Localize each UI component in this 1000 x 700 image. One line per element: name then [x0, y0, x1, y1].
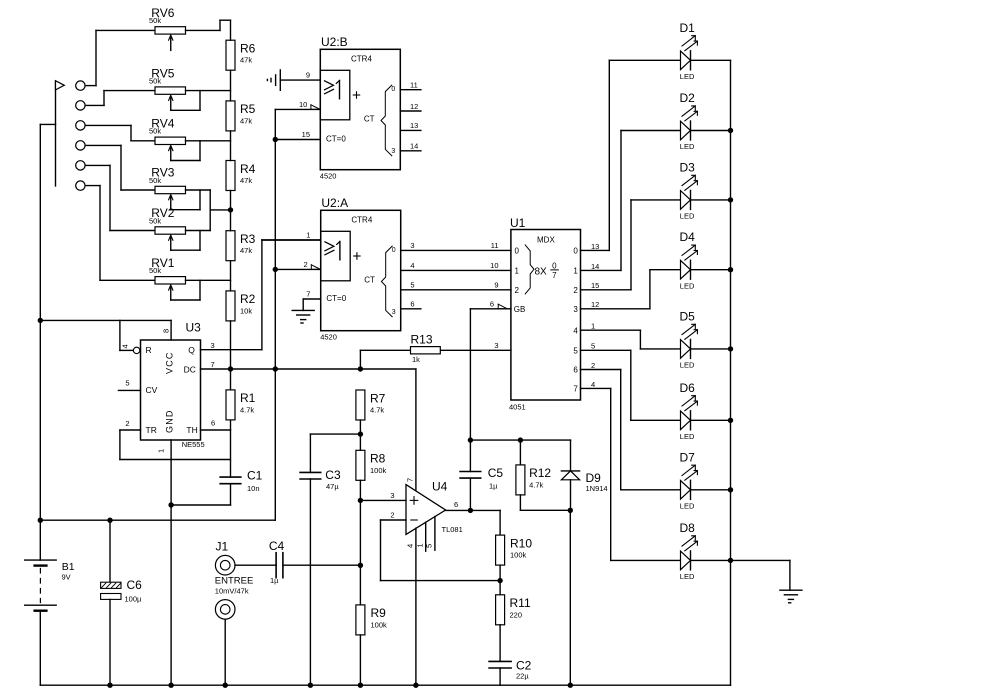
svg-text:Q: Q	[188, 345, 195, 355]
svg-text:1: 1	[157, 449, 166, 453]
svg-text:MDX: MDX	[537, 235, 555, 244]
svg-text:0: 0	[515, 247, 520, 256]
svg-text:D8: D8	[680, 521, 696, 535]
svg-text:D7: D7	[680, 450, 696, 464]
svg-text:13: 13	[591, 242, 599, 251]
svg-text:9: 9	[494, 280, 498, 289]
svg-text:CTR4: CTR4	[351, 216, 372, 225]
svg-text:0: 0	[552, 262, 557, 271]
svg-text:CV: CV	[146, 385, 158, 395]
svg-text:9V: 9V	[62, 573, 71, 582]
svg-text:4: 4	[406, 544, 415, 548]
svg-text:LED: LED	[680, 361, 695, 370]
svg-text:5: 5	[573, 347, 578, 356]
svg-text:7: 7	[306, 289, 310, 298]
svg-text:47µ: 47µ	[326, 482, 339, 491]
svg-text:R1: R1	[240, 391, 256, 405]
svg-text:8: 8	[162, 329, 171, 333]
svg-text:R10: R10	[510, 536, 532, 550]
svg-text:11: 11	[410, 81, 418, 90]
svg-text:R: R	[146, 345, 152, 355]
svg-text:TH: TH	[186, 425, 197, 435]
svg-text:50k: 50k	[149, 76, 161, 85]
svg-text:1µ: 1µ	[270, 576, 279, 585]
svg-text:0: 0	[391, 86, 395, 93]
svg-text:50k: 50k	[149, 16, 161, 25]
svg-text:22µ: 22µ	[516, 672, 529, 681]
svg-text:8X: 8X	[535, 266, 548, 277]
svg-text:50k: 50k	[149, 176, 161, 185]
svg-text:10: 10	[490, 261, 498, 270]
svg-text:13: 13	[410, 121, 418, 130]
svg-text:VCC: VCC	[165, 351, 175, 374]
svg-text:12: 12	[591, 300, 599, 309]
svg-text:D9: D9	[586, 471, 602, 485]
svg-text:CT=0: CT=0	[326, 294, 346, 303]
svg-text:4520: 4520	[320, 333, 337, 342]
svg-text:15: 15	[591, 281, 599, 290]
svg-text:D4: D4	[680, 230, 696, 244]
svg-text:6: 6	[211, 419, 215, 428]
svg-text:GB: GB	[514, 305, 526, 314]
svg-text:100k: 100k	[370, 466, 387, 475]
svg-text:TR: TR	[146, 425, 157, 435]
svg-text:U2:A: U2:A	[321, 196, 348, 210]
svg-text:2: 2	[573, 286, 578, 295]
svg-text:1µ: 1µ	[489, 482, 498, 491]
svg-text:4520: 4520	[320, 172, 337, 181]
svg-text:NE555: NE555	[182, 440, 205, 449]
svg-text:CT: CT	[364, 115, 375, 124]
svg-text:50k: 50k	[149, 127, 161, 136]
svg-text:5: 5	[125, 379, 129, 388]
svg-text:6: 6	[454, 500, 458, 509]
svg-text:D5: D5	[680, 309, 696, 323]
svg-text:U2:B: U2:B	[321, 35, 348, 49]
svg-text:LED: LED	[680, 502, 695, 511]
svg-text:50k: 50k	[149, 266, 161, 275]
svg-text:0: 0	[573, 247, 578, 256]
svg-text:1: 1	[306, 230, 310, 239]
svg-text:4051: 4051	[509, 402, 526, 411]
svg-text:10n: 10n	[247, 484, 260, 493]
svg-text:1: 1	[591, 322, 595, 331]
svg-text:D6: D6	[680, 381, 696, 395]
svg-text:2: 2	[591, 361, 595, 370]
svg-text:7: 7	[406, 478, 415, 482]
svg-text:R4: R4	[240, 162, 256, 176]
svg-text:B1: B1	[62, 561, 75, 573]
svg-text:1: 1	[415, 543, 424, 547]
svg-text:10mV/47k: 10mV/47k	[215, 586, 249, 595]
svg-text:0: 0	[392, 247, 396, 254]
svg-text:4.7k: 4.7k	[240, 405, 254, 414]
svg-text:3: 3	[410, 241, 414, 250]
svg-text:GND: GND	[165, 409, 175, 433]
svg-text:R12: R12	[529, 466, 551, 480]
svg-text:5: 5	[425, 544, 434, 548]
svg-text:C6: C6	[127, 578, 143, 592]
svg-text:D3: D3	[680, 160, 696, 174]
svg-text:12: 12	[410, 102, 418, 111]
svg-text:2: 2	[390, 511, 394, 520]
svg-text:15: 15	[302, 130, 310, 139]
svg-text:D1: D1	[680, 21, 696, 35]
svg-text:47k: 47k	[240, 176, 252, 185]
svg-text:U1: U1	[510, 216, 526, 230]
svg-text:5: 5	[591, 342, 595, 351]
svg-text:9: 9	[306, 71, 310, 80]
svg-text:J1: J1	[216, 539, 229, 553]
svg-text:LED: LED	[680, 212, 695, 221]
svg-text:ENTREE: ENTREE	[215, 575, 254, 586]
svg-text:3: 3	[211, 341, 215, 350]
svg-text:4: 4	[573, 326, 578, 335]
svg-text:R11: R11	[510, 596, 531, 610]
svg-text:220: 220	[510, 610, 523, 619]
svg-text:4: 4	[120, 344, 129, 348]
svg-text:11: 11	[491, 241, 499, 250]
svg-text:CT=0: CT=0	[326, 134, 346, 143]
svg-text:14: 14	[591, 262, 599, 271]
svg-text:LED: LED	[680, 432, 695, 441]
svg-text:DC: DC	[184, 364, 196, 374]
svg-text:6: 6	[410, 300, 414, 309]
svg-text:100k: 100k	[510, 551, 527, 560]
svg-text:2: 2	[304, 260, 308, 269]
svg-text:6: 6	[573, 366, 578, 375]
svg-text:LED: LED	[680, 572, 695, 581]
svg-text:R6: R6	[240, 42, 256, 56]
svg-text:100µ: 100µ	[125, 594, 143, 603]
svg-text:TL081: TL081	[442, 525, 463, 534]
svg-text:1k: 1k	[412, 355, 420, 364]
svg-text:1: 1	[515, 267, 520, 276]
svg-text:7: 7	[211, 360, 215, 369]
svg-text:1N914: 1N914	[586, 484, 608, 493]
svg-text:10: 10	[299, 100, 307, 109]
svg-text:R3: R3	[240, 232, 256, 246]
svg-text:C1: C1	[247, 469, 263, 483]
svg-text:14: 14	[410, 142, 418, 151]
svg-text:5: 5	[410, 281, 414, 290]
svg-text:3: 3	[391, 148, 395, 155]
svg-text:R2: R2	[240, 292, 256, 306]
svg-text:7: 7	[573, 385, 578, 394]
svg-text:3: 3	[390, 491, 394, 500]
svg-text:1: 1	[573, 267, 578, 276]
svg-text:3: 3	[573, 305, 578, 314]
svg-text:R9: R9	[371, 606, 387, 620]
svg-text:LED: LED	[680, 72, 695, 81]
svg-text:R5: R5	[240, 102, 256, 116]
svg-text:4: 4	[410, 261, 414, 270]
svg-text:CTR4: CTR4	[351, 55, 372, 64]
svg-text:47k: 47k	[240, 56, 252, 65]
svg-text:47k: 47k	[240, 116, 252, 125]
svg-text:50k: 50k	[149, 216, 161, 225]
svg-text:100k: 100k	[371, 620, 388, 629]
svg-text:2: 2	[515, 286, 520, 295]
svg-text:CT: CT	[364, 276, 375, 285]
svg-text:C2: C2	[516, 658, 532, 672]
svg-text:R8: R8	[370, 452, 386, 466]
svg-text:U3: U3	[186, 321, 202, 335]
svg-text:C4: C4	[269, 539, 285, 553]
svg-text:47k: 47k	[240, 246, 252, 255]
svg-text:C5: C5	[488, 466, 504, 480]
svg-text:7: 7	[552, 271, 557, 280]
svg-text:6: 6	[490, 299, 494, 308]
svg-text:R13: R13	[411, 333, 433, 347]
svg-text:U4: U4	[432, 480, 448, 494]
svg-text:LED: LED	[680, 142, 695, 151]
svg-text:3: 3	[392, 309, 396, 316]
svg-text:10k: 10k	[240, 306, 252, 315]
svg-text:D2: D2	[680, 91, 696, 105]
svg-text:3: 3	[494, 341, 498, 350]
svg-text:2: 2	[125, 419, 129, 428]
svg-text:4.7k: 4.7k	[370, 406, 384, 415]
svg-text:C3: C3	[325, 468, 341, 482]
svg-text:4: 4	[591, 380, 595, 389]
svg-text:4.7k: 4.7k	[529, 480, 543, 489]
svg-text:LED: LED	[680, 281, 695, 290]
svg-text:R7: R7	[370, 391, 386, 405]
